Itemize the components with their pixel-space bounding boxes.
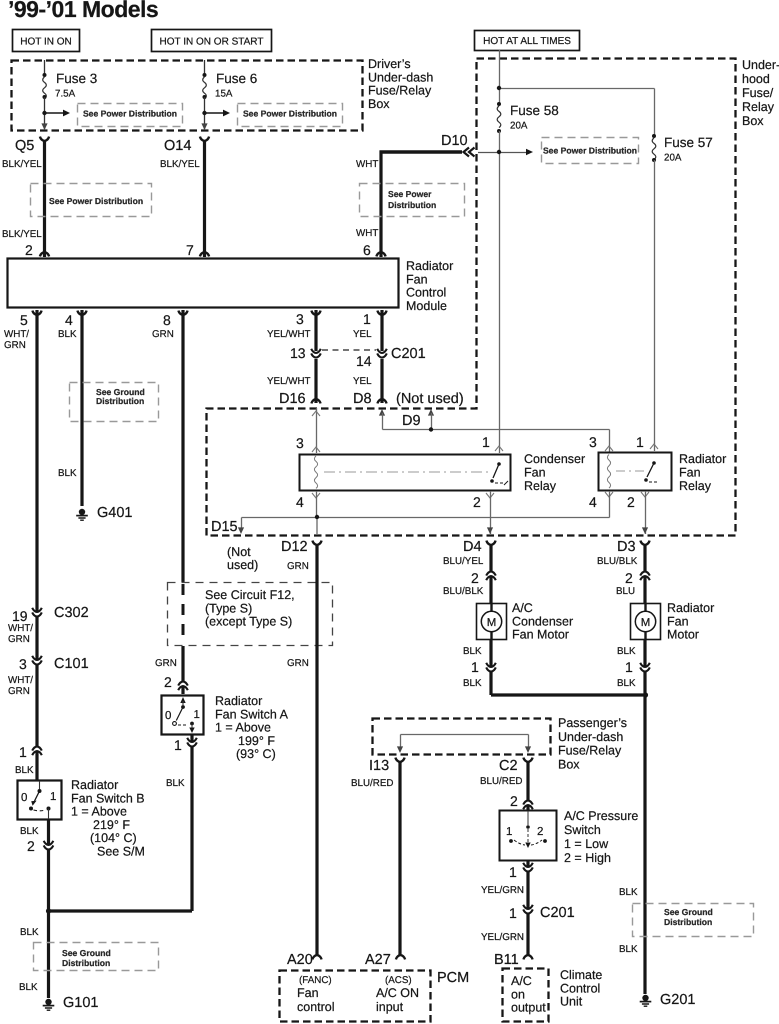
label WHT/GRN below C302 (8, 623, 33, 645)
label Climate Control Unit (560, 968, 602, 1009)
svg-text:2: 2 (25, 242, 33, 258)
svg-text:BLK/YEL: BLK/YEL (2, 229, 42, 240)
ground G101 (43, 995, 99, 1011)
svg-text:D3: D3 (617, 539, 636, 555)
svg-text:D16: D16 (279, 391, 306, 407)
svg-text:Under-dash: Under-dash (368, 70, 433, 84)
box See Power Distribution (fuse 6) (238, 104, 343, 127)
svg-text:Fuse/: Fuse/ (742, 86, 774, 100)
header box HOT IN ON (13, 30, 80, 52)
svg-text:YEL/WHT: YEL/WHT (267, 376, 311, 387)
svg-text:2: 2 (510, 793, 518, 809)
node D9 junction (429, 427, 433, 431)
svg-text:See Circuit F12,: See Circuit F12, (205, 588, 295, 602)
svg-text:(104° C): (104° C) (90, 831, 137, 845)
switch A/C Pressure Switch (500, 811, 557, 861)
connector O14 (164, 137, 209, 154)
svg-text:2: 2 (627, 494, 635, 510)
svg-text:7: 7 (186, 242, 194, 258)
svg-text:HOT IN ON: HOT IN ON (20, 37, 71, 48)
connector C101 pin 3 (19, 656, 89, 672)
svg-text:Control: Control (406, 286, 446, 300)
label Passenger's Under-dash Fuse/Relay Box (558, 716, 627, 771)
svg-text:WHT: WHT (356, 159, 378, 170)
svg-text:A/C ON: A/C ON (376, 986, 419, 1000)
node relay coil junction (315, 515, 319, 519)
wire WHT module pin 6 to D10 (356, 151, 462, 258)
svg-text:See Power Distribution: See Power Distribution (243, 109, 337, 119)
motor A/C Condenser Fan Motor (477, 604, 507, 640)
svg-text:GRN: GRN (8, 686, 30, 697)
svg-text:BLU: BLU (616, 586, 635, 597)
svg-text:3: 3 (589, 434, 597, 450)
pin 1 pressure switch (509, 863, 533, 880)
svg-text:BLK: BLK (20, 826, 39, 837)
svg-text:used): used) (227, 558, 258, 572)
svg-text:Relay: Relay (524, 479, 557, 493)
wire BLU/BLK D3 to motor (597, 544, 645, 603)
svg-text:GRN: GRN (287, 658, 309, 669)
svg-text:See Ground: See Ground (62, 948, 111, 958)
svg-text:19: 19 (12, 608, 28, 624)
pin 1 switch B (15, 744, 42, 776)
svg-text:O14: O14 (164, 138, 191, 154)
svg-text:(Not: (Not (227, 545, 251, 559)
box See Power Distribution (on pin 6 wire) (360, 184, 465, 217)
svg-text:C101: C101 (54, 656, 89, 672)
svg-text:BLK: BLK (463, 646, 482, 657)
svg-text:Distribution: Distribution (664, 917, 712, 927)
pin 8 module bottom (163, 311, 188, 328)
box Driver's Under-dash Fuse/Relay Box (dashed) (12, 61, 363, 131)
fuse Fuse 57 20A (652, 134, 713, 164)
svg-text:1: 1 (509, 905, 517, 921)
svg-text:BLK/YEL: BLK/YEL (2, 159, 42, 170)
wire BLU/RED C2 to pressure switch (480, 761, 528, 810)
svg-text:C2: C2 (499, 758, 518, 774)
svg-text:BLK: BLK (619, 887, 638, 898)
svg-text:See Power Distribution: See Power Distribution (83, 109, 177, 119)
wire BLK radiator motor to G201 (619, 640, 645, 994)
svg-text:2: 2 (473, 494, 481, 510)
svg-text:BLK: BLK (19, 982, 38, 993)
svg-text:BLU/BLK: BLU/BLK (443, 586, 484, 597)
svg-text:BLU/RED: BLU/RED (351, 778, 393, 789)
wire BLK to G101 (19, 911, 49, 998)
box See Power Distribution (underhood) (542, 138, 639, 164)
wire hot-at-all-times feed (500, 50, 655, 136)
svg-text:5: 5 (20, 312, 28, 328)
svg-text:Fan Motor: Fan Motor (512, 628, 569, 642)
svg-text:Radiator: Radiator (406, 259, 453, 273)
svg-text:Box: Box (742, 114, 764, 128)
svg-text:Fuse 3: Fuse 3 (56, 71, 97, 86)
svg-text:(except Type S): (except Type S) (205, 615, 292, 629)
label Radiator Fan Control Module (406, 259, 453, 313)
relay Condenser Fan Relay (300, 455, 511, 491)
svg-text:4: 4 (65, 312, 73, 328)
svg-text:See Power Distribution: See Power Distribution (543, 146, 637, 156)
wire BLU/YEL D4 to motor (443, 544, 491, 603)
fuse Fuse 58 20A (497, 102, 559, 133)
svg-text:See Power Distribution: See Power Distribution (49, 196, 143, 206)
switch Radiator Fan Switch B (18, 781, 62, 820)
fuse Fuse 3 7.5A (43, 60, 98, 129)
svg-text:4: 4 (296, 494, 304, 510)
svg-text:Distribution: Distribution (62, 958, 110, 968)
wire GRN pin8 to switch A (152, 310, 183, 694)
svg-text:PCM: PCM (437, 970, 469, 986)
svg-text:WHT: WHT (356, 228, 378, 239)
connector D4 (463, 539, 496, 555)
switch Radiator Fan Switch A (162, 696, 204, 735)
svg-text:1 = Low: 1 = Low (564, 837, 609, 851)
wire D16 to condenser relay pin 3 (296, 408, 320, 453)
svg-text:control: control (297, 1000, 335, 1014)
svg-text:Fuse/Relay: Fuse/Relay (558, 744, 622, 758)
svg-text:1: 1 (509, 864, 517, 880)
pin 2 switch B (20, 826, 53, 854)
svg-text:D12: D12 (281, 539, 308, 555)
svg-text:HOT AT ALL TIMES: HOT AT ALL TIMES (483, 36, 571, 47)
wire WHT/GRN pin5 to switch B (4, 310, 37, 780)
svg-text:3: 3 (296, 311, 304, 327)
box Radiator Fan Control Module (8, 259, 399, 308)
connector D3 (617, 539, 650, 555)
connector D16 (279, 391, 321, 407)
svg-text:output: output (511, 1001, 546, 1015)
connector C201 pin 1 (lower) (509, 905, 575, 921)
svg-text:G201: G201 (660, 992, 695, 1008)
svg-text:1: 1 (506, 826, 512, 838)
label Condenser Fan Relay (524, 452, 585, 493)
pin 2 radiator relay (627, 491, 649, 534)
svg-text:4: 4 (589, 494, 597, 510)
svg-text:BLK: BLK (58, 329, 77, 340)
connector A20 (287, 952, 322, 968)
svg-text:See Ground: See Ground (664, 907, 713, 917)
svg-text:WHT/: WHT/ (8, 675, 33, 686)
label A/C Condenser Fan Motor (512, 601, 573, 642)
svg-text:7.5A: 7.5A (55, 89, 76, 100)
svg-text:1: 1 (625, 659, 633, 675)
svg-text:WHT/: WHT/ (4, 329, 29, 340)
svg-text:B11: B11 (494, 952, 519, 968)
svg-text:Radiator: Radiator (215, 694, 262, 708)
svg-text:Module: Module (406, 299, 447, 313)
connector D15 (211, 519, 258, 572)
wire BLK/YEL O14 to module pin 7 (160, 140, 205, 257)
svg-text:Condenser: Condenser (512, 614, 573, 628)
label (ACS) A/C ON input (376, 975, 419, 1014)
svg-text:Fuse 6: Fuse 6 (216, 71, 257, 86)
svg-text:M: M (487, 617, 497, 629)
svg-text:2: 2 (471, 570, 479, 586)
motor Radiator Fan Motor (631, 604, 661, 640)
connector C201 tie line (322, 346, 426, 362)
wire arrow fuse3 to See Power Distribution (45, 110, 71, 117)
svg-text:BLK: BLK (20, 927, 39, 938)
wire arrow fuse6 to See Power Distribution (205, 110, 231, 117)
wire BLK/YEL Q5 to module pin 2 (2, 140, 45, 257)
svg-text:1: 1 (636, 434, 644, 450)
svg-text:BLU/RED: BLU/RED (480, 776, 522, 787)
svg-text:1: 1 (194, 709, 200, 721)
svg-text:I13: I13 (369, 758, 389, 774)
svg-text:G101: G101 (63, 995, 98, 1011)
svg-text:2: 2 (537, 826, 543, 838)
svg-text:1: 1 (174, 737, 182, 753)
svg-text:BLK: BLK (619, 944, 638, 955)
svg-text:YEL/GRN: YEL/GRN (481, 885, 524, 896)
svg-text:(93° C): (93° C) (236, 747, 276, 761)
svg-text:G401: G401 (97, 505, 132, 521)
wire GRN D12 to A20 (287, 544, 317, 955)
wire fuse58 to condenser relay pin 1 (499, 131, 501, 453)
pin 2 radiator motor (616, 570, 650, 597)
wire YEL/GRN pressure switch to C201 (481, 860, 528, 955)
box PCM (dashed) (280, 970, 470, 1022)
svg-text:BLK: BLK (58, 468, 77, 479)
fuse Fuse 6 15A (203, 60, 258, 129)
ground G201 (640, 992, 696, 1008)
svg-text:0: 0 (165, 710, 171, 722)
header box HOT IN ON OR START (152, 30, 272, 52)
wire fuse57 to radiator relay pin 1 (654, 160, 656, 451)
connector A27 (365, 952, 405, 968)
svg-text:Climate: Climate (560, 968, 602, 982)
svg-text:Relay: Relay (742, 100, 775, 114)
connector Q5 (15, 137, 49, 154)
wire YEL pin1 to C201 (353, 310, 382, 351)
svg-text:3: 3 (296, 435, 304, 451)
label (FANC) Fan control (297, 975, 335, 1014)
svg-text:Fan: Fan (297, 986, 319, 1000)
box See Circuit F12 (dashed) (168, 583, 333, 646)
connector B11 (494, 952, 533, 968)
label Radiator Fan Switch B (71, 778, 145, 859)
relay Radiator Fan Relay (599, 453, 672, 491)
svg-text:Radiator: Radiator (71, 778, 118, 792)
svg-text:M: M (641, 617, 651, 629)
svg-text:A27: A27 (365, 952, 391, 968)
wire BLK pin4 to G401 (58, 310, 82, 506)
svg-text:Control: Control (560, 981, 600, 995)
pin 3 module bottom (296, 311, 321, 327)
pin 1 radiator motor (617, 646, 650, 689)
svg-text:GRN: GRN (155, 658, 177, 669)
node feed junction (497, 86, 501, 90)
svg-text:1: 1 (471, 659, 479, 675)
box Underhood Fuse/Relay Box (dashed) (207, 59, 736, 536)
pin 1 switch A (166, 737, 197, 789)
svg-text:15A: 15A (215, 89, 233, 100)
svg-text:0: 0 (21, 792, 27, 804)
svg-text:Box: Box (558, 757, 580, 771)
svg-text:6: 6 (363, 242, 371, 258)
svg-text:2: 2 (164, 674, 172, 690)
svg-text:(Type S): (Type S) (205, 601, 252, 615)
svg-text:Fan: Fan (406, 272, 428, 286)
pin 2 module top (25, 242, 49, 258)
label A/C Pressure Switch (564, 809, 638, 865)
pin 1 condenser relay (482, 434, 503, 451)
label Driver's Under-dash Fuse/Relay Box (368, 57, 433, 111)
pin 6 module top (363, 242, 386, 258)
svg-text:GRN: GRN (287, 561, 309, 572)
node ground junction G101 (46, 908, 51, 913)
connector C201 pin 14 (356, 349, 387, 369)
svg-text:14: 14 (356, 353, 372, 369)
svg-text:Relay: Relay (679, 479, 712, 493)
svg-text:YEL/GRN: YEL/GRN (481, 932, 524, 943)
svg-text:YEL/WHT: YEL/WHT (267, 329, 311, 340)
svg-text:Radiator: Radiator (679, 452, 726, 466)
pin 5 module bottom (20, 311, 42, 328)
svg-text:BLU/BLK: BLU/BLK (597, 556, 638, 567)
svg-text:2 = High: 2 = High (564, 851, 611, 865)
pin 2 switch A (164, 674, 188, 690)
svg-text:Condenser: Condenser (524, 452, 585, 466)
wire BLK switch A to junction (190, 735, 193, 911)
box See Ground Distribution (G201) (633, 904, 754, 937)
svg-text:1: 1 (50, 791, 56, 803)
svg-text:3: 3 (19, 656, 27, 672)
svg-text:Fan: Fan (667, 614, 689, 628)
svg-text:hood: hood (742, 72, 770, 86)
svg-text:199° F: 199° F (238, 734, 275, 748)
svg-text:Distribution: Distribution (388, 200, 436, 210)
svg-text:Driver’s: Driver’s (368, 57, 411, 71)
connector D10 (441, 133, 475, 157)
arrow fuse3 wire exits box (41, 123, 47, 130)
svg-text:2: 2 (27, 838, 35, 854)
svg-text:1: 1 (482, 434, 490, 450)
svg-text:HOT IN ON OR START: HOT IN ON OR START (160, 37, 264, 48)
pin 7 module top (186, 242, 209, 258)
svg-text:’99-’01 Models: ’99-’01 Models (8, 0, 158, 22)
node fuse6 junction (202, 111, 206, 115)
pin 2 condenser relay (473, 491, 494, 534)
svg-text:Passenger’s: Passenger’s (558, 716, 627, 730)
svg-text:Fuse 58: Fuse 58 (510, 103, 559, 118)
pin 4 module bottom (65, 311, 87, 328)
svg-text:Switch: Switch (564, 823, 601, 837)
wire passenger box internal link (397, 735, 531, 754)
svg-text:GRN: GRN (4, 340, 26, 351)
svg-text:GRN: GRN (8, 634, 30, 645)
wire BLK switch B to ground junction (20, 820, 49, 938)
svg-text:Motor: Motor (667, 628, 699, 642)
box See Power Distribution (on Q5 wire) (31, 184, 152, 217)
svg-text:Fuse 57: Fuse 57 (664, 135, 713, 150)
wire BLU/RED I13 to A27 (351, 761, 400, 955)
svg-text:219° F: 219° F (93, 818, 130, 832)
label Underhood Fuse/Relay Box (742, 58, 779, 128)
svg-text:See S/M: See S/M (97, 845, 145, 859)
svg-text:D15: D15 (211, 519, 238, 535)
label Radiator Fan Motor (667, 601, 714, 642)
header box HOT AT ALL TIMES (475, 31, 580, 51)
svg-text:1 = Above: 1 = Above (71, 805, 127, 819)
svg-text:D10: D10 (441, 133, 468, 149)
wire YEL C201 to D8 (353, 359, 382, 403)
svg-text:BLK/YEL: BLK/YEL (160, 159, 200, 170)
svg-text:Under-dash: Under-dash (558, 730, 623, 744)
svg-text:Fan Switch A: Fan Switch A (215, 707, 289, 721)
svg-text:D8: D8 (353, 391, 372, 407)
wire BLK condenser motor to junction (491, 640, 646, 695)
svg-text:A/C: A/C (512, 601, 533, 615)
box See Power Distribution (fuse 3) (78, 104, 183, 127)
wire switch A pin1 to ground junction (49, 909, 193, 912)
svg-text:BLK: BLK (617, 678, 636, 689)
svg-text:C201: C201 (391, 346, 426, 362)
wire relay coils to D12/D15 (238, 518, 610, 535)
svg-text:See Power: See Power (388, 189, 432, 199)
svg-text:BLK: BLK (166, 778, 185, 789)
connector D8 (353, 391, 387, 407)
svg-text:GRN: GRN (152, 329, 174, 340)
arrow fuse6 wire exits box (201, 123, 207, 130)
pin 1 radiator relay (636, 434, 658, 450)
pin 1 condenser motor (463, 646, 496, 689)
svg-text:C201: C201 (540, 905, 575, 921)
svg-text:Fan: Fan (679, 466, 701, 480)
svg-text:(Not used): (Not used) (396, 391, 464, 407)
connector C2 (499, 758, 533, 774)
svg-text:8: 8 (163, 312, 171, 328)
svg-text:Q5: Q5 (15, 138, 34, 154)
svg-text:Unit: Unit (560, 995, 583, 1009)
label Radiator Fan Switch A (215, 694, 289, 761)
svg-text:Radiator: Radiator (667, 601, 714, 615)
pin 4 radiator relay (589, 491, 613, 518)
svg-text:C302: C302 (54, 605, 89, 621)
svg-text:D9: D9 (402, 413, 421, 429)
svg-text:Fan: Fan (524, 466, 546, 480)
svg-text:A20: A20 (287, 952, 313, 968)
pin 1 module bottom (363, 311, 387, 327)
svg-text:BLK: BLK (463, 678, 482, 689)
svg-text:A/C: A/C (511, 974, 532, 988)
box See Ground Distribution (G101) (34, 943, 159, 971)
svg-text:Fan Switch B: Fan Switch B (71, 791, 145, 805)
wire YEL/WHT pin3 to C201 (267, 310, 316, 351)
svg-text:Fuse/Relay: Fuse/Relay (368, 84, 432, 98)
svg-text:Distribution: Distribution (96, 396, 144, 406)
svg-text:YEL: YEL (353, 376, 372, 387)
svg-text:1: 1 (19, 744, 27, 760)
svg-text:Under-: Under- (742, 58, 779, 72)
svg-text:20A: 20A (664, 153, 682, 164)
svg-text:1: 1 (363, 311, 371, 327)
node motor ground junction (643, 692, 648, 697)
label Radiator Fan Relay (679, 452, 726, 493)
svg-text:input: input (376, 1000, 404, 1014)
svg-text:Box: Box (368, 97, 390, 111)
svg-text:D4: D4 (463, 539, 482, 555)
svg-text:13: 13 (290, 345, 306, 361)
pin 2 pressure switch (510, 793, 533, 809)
svg-text:WHT/: WHT/ (8, 623, 33, 634)
svg-text:YEL: YEL (353, 329, 372, 340)
svg-text:20A: 20A (510, 121, 528, 132)
svg-text:2: 2 (625, 570, 633, 586)
box See Ground Distribution (G401) (70, 383, 159, 422)
pin 4 condenser relay (296, 491, 320, 518)
node fuse58/D10 junction (497, 150, 501, 154)
